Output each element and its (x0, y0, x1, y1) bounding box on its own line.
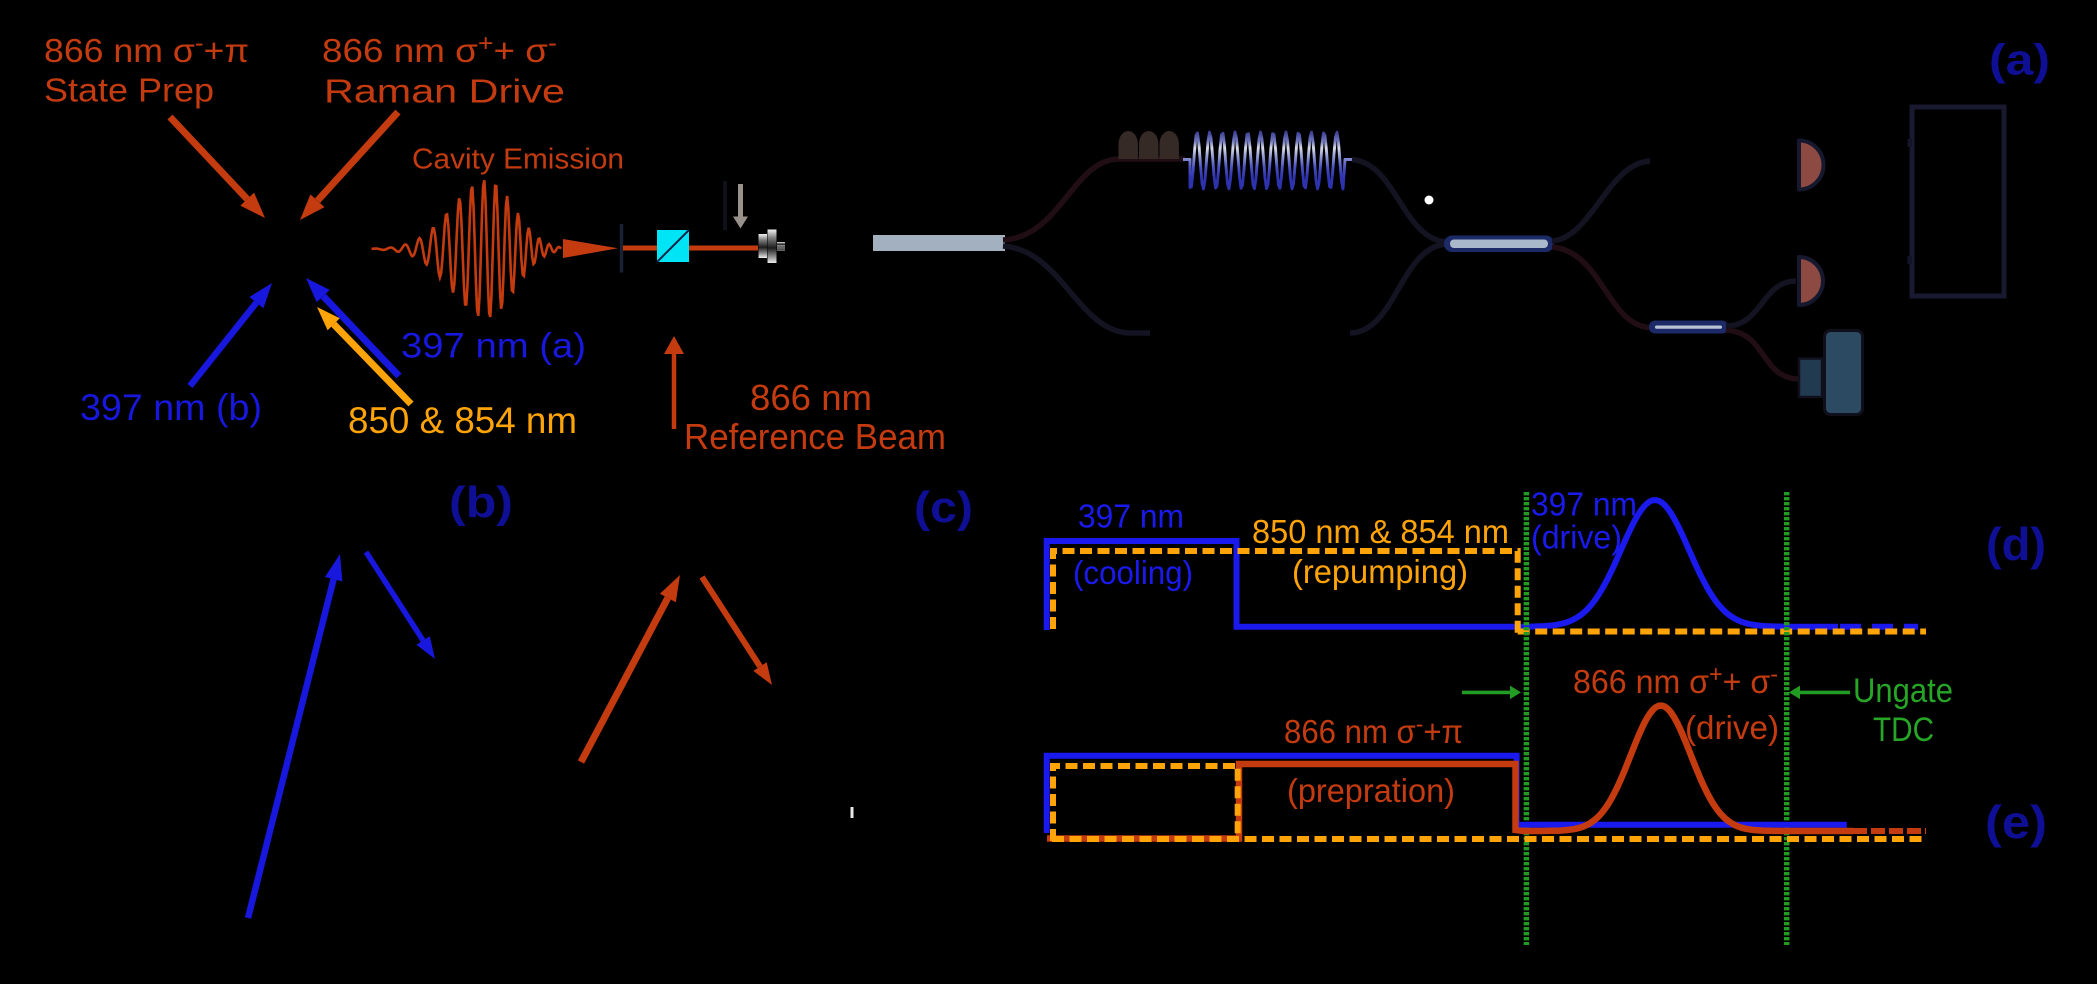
fiber coupler collimator (759, 234, 768, 258)
wire: fiber upper arm to spool (1003, 159, 1185, 240)
svg-text:Reference Beam: Reference Beam (684, 416, 946, 457)
wire: coupler1 lower output (1552, 247, 1651, 328)
svg-text:(repumping): (repumping) (1292, 553, 1468, 590)
svg-text:(a): (a) (1989, 36, 2050, 85)
node: white tick mark (851, 807, 854, 818)
wire: coupler2 to detector D2 (1726, 281, 1796, 326)
svg-text:(e): (e) (1985, 796, 2047, 848)
svg-text:866 nm σ++ σ-: 866 nm σ++ σ- (322, 30, 557, 69)
svg-text:(drive): (drive) (1685, 709, 1779, 746)
arrow: 866 nm Raman up (c) (581, 598, 668, 762)
arrow: 866 nm Raman drive beam (318, 112, 399, 201)
fiber coupler 50/50 #1 (1444, 236, 1554, 253)
fiber coupler 50/50 #2 (1649, 321, 1728, 334)
TDC box outline (1912, 107, 2004, 296)
detector D1 (half disc) (1799, 141, 1824, 190)
svg-text:Ungate: Ungate (1853, 672, 1953, 710)
arrow: 866 nm reference beam (672, 354, 677, 429)
wire: 397 nm level (blue, e) (1047, 756, 1847, 833)
wire: red dashed continuation (e) (1853, 828, 1926, 834)
svg-text:866 nm σ++ σ-: 866 nm σ++ σ- (1573, 661, 1778, 700)
svg-text:850 & 854 nm: 850 & 854 nm (348, 399, 577, 441)
svg-text:866 nm: 866 nm (750, 377, 872, 418)
fiber stretcher block (873, 235, 1005, 251)
fiber spool coil (1183, 132, 1352, 189)
svg-text:(d): (d) (1986, 518, 2046, 570)
svg-text:State Prep: State Prep (44, 72, 214, 109)
svg-text:397 nm (b): 397 nm (b) (80, 387, 262, 428)
arrow: gate end (green) (1800, 691, 1850, 695)
arrow: gate start (green) (1462, 691, 1510, 695)
gate marker: green dotted line 1 (1524, 492, 1530, 945)
arrow: 850 & 854 nm beam (334, 324, 411, 404)
svg-text:Cavity Emission: Cavity Emission (412, 144, 624, 176)
svg-text:397 nm: 397 nm (1078, 498, 1184, 535)
svg-text:(drive): (drive) (1531, 519, 1622, 556)
wire: 397 nm cooling pulse (blue, d) (1047, 500, 1838, 630)
wire: fiber from spool to coupler (1352, 160, 1446, 243)
pin notches on TDC box (1908, 139, 1913, 147)
svg-text:(cooling): (cooling) (1073, 554, 1193, 591)
svg-text:866 nm σ-+π: 866 nm σ-+π (44, 30, 249, 69)
gate marker: green dotted line 2 (1784, 492, 1790, 945)
detector D2 (half disc) (1799, 257, 1823, 305)
svg-text:397 nm: 397 nm (1531, 486, 1637, 523)
svg-text:Raman Drive: Raman Drive (324, 73, 565, 110)
detector module box (1799, 359, 1822, 398)
mirror: faint pick-off (723, 181, 727, 230)
wire: 850/854 nm repump dashed (d) (1053, 551, 1518, 633)
mirror: cavity output mirror (620, 224, 624, 273)
arrow: 397 nm (a) beam (323, 296, 399, 376)
beamsplitter cube (657, 230, 689, 262)
wire: 866 nm beam line (623, 246, 758, 251)
node: white dot (1425, 196, 1434, 205)
svg-text:(b): (b) (449, 478, 513, 527)
waveform: cavity emission chirped pulse (372, 180, 562, 317)
arrow: cavity decay (b) (366, 552, 423, 641)
arrow: 866 nm Raman down (c) (702, 577, 760, 667)
svg-text:866 nm σ-+π: 866 nm σ-+π (1284, 711, 1463, 750)
svg-text:(prepration): (prepration) (1287, 772, 1455, 809)
svg-text:850 nm & 854 nm: 850 nm & 854 nm (1252, 513, 1509, 550)
arrow: 397 nm (b) beam (190, 303, 256, 386)
svg-text:TDC: TDC (1873, 711, 1934, 749)
wire: 866 nm sigma-minus+pi preparation pulse (red, e) (1047, 706, 1853, 839)
arrowhead: emission direction (563, 239, 618, 258)
arrow: 866 nm state-prep beam (170, 117, 247, 199)
wire: coupler2 to SNSPD box (1726, 330, 1800, 379)
wire: coupler1 upper output (unused) (1552, 161, 1650, 241)
polarization paddles (three humps) (1119, 131, 1138, 159)
arrow: gray pick-off beam (738, 184, 743, 217)
wire: fiber lower delay arm (1003, 246, 1150, 333)
svg-text:(c): (c) (914, 483, 973, 532)
arrow: 397 nm excitation (b) (248, 579, 334, 918)
svg-text:397 nm (a): 397 nm (a) (401, 327, 586, 366)
wire: 850/854 dashed rect + baseline (e) (1053, 766, 1238, 841)
wire: blue dashed continuation (d) (1840, 624, 1918, 630)
